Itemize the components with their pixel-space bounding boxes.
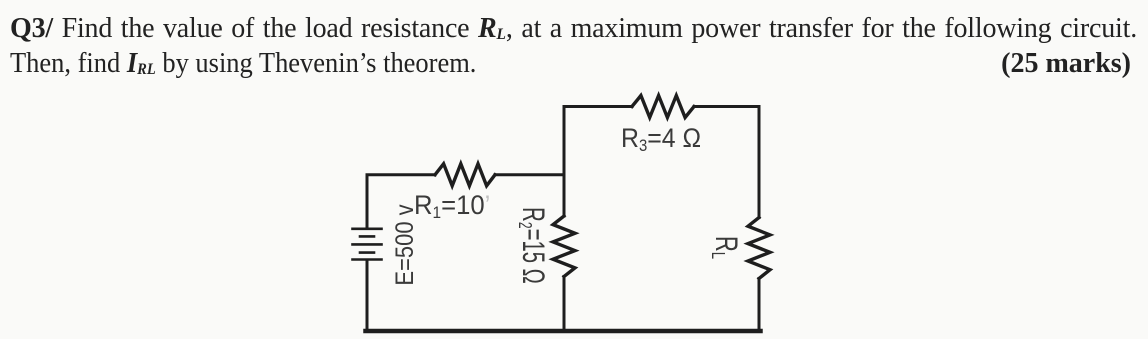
- label E=500 v: [390, 200, 420, 290]
- wire R1 to middle node: [495, 173, 564, 176]
- wire left top (battery to R1 corner): [367, 175, 435, 228]
- label RL: [707, 232, 744, 263]
- label R1=10: [414, 190, 490, 221]
- resistor R3: [632, 96, 694, 118]
- resistor R2: [553, 216, 575, 277]
- wire top right corner down: [694, 107, 759, 218]
- label R2=15: [514, 207, 551, 285]
- question text: [10, 0, 1135, 1]
- resistor R1: [435, 164, 495, 186]
- wire middle lower: [563, 277, 566, 332]
- label R3=4: [621, 123, 701, 154]
- battery E plates: [353, 229, 382, 260]
- wire right lower: [758, 279, 761, 332]
- wire middle vertical upper (node to top loop): [564, 107, 632, 175]
- wire middle node to R2: [563, 175, 566, 216]
- resistor RL: [748, 218, 770, 279]
- wire bottom: [366, 329, 761, 334]
- wire battery bottom: [366, 261, 369, 331]
